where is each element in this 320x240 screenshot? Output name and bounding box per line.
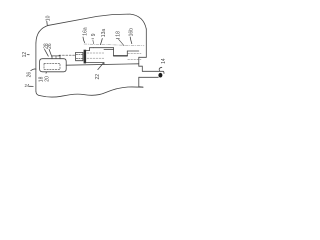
optical axis dash-dot line	[84, 44, 144, 46]
leader 28	[45, 49, 49, 56]
photodiode box (rounded)	[40, 59, 67, 72]
leader 12 tick	[27, 54, 29, 56]
leader 14	[159, 67, 162, 71]
leader 22	[98, 63, 104, 70]
svg-text:10: 10	[45, 15, 51, 21]
barrel flange thin line	[104, 49, 114, 51]
housing left edge	[35, 43, 37, 92]
leader 13a	[100, 39, 102, 45]
laser pin top line	[142, 71, 164, 73]
barrel section top edge with notch	[86, 48, 93, 51]
housing right step	[139, 56, 147, 58]
chip on box top	[52, 56, 60, 59]
leader 9	[92, 39, 94, 44]
leader 16a	[83, 37, 85, 43]
photodiode inner dashed rect	[44, 63, 60, 69]
right block top edge	[127, 50, 139, 52]
leader 16b	[130, 37, 132, 44]
housing right edge below pin	[139, 77, 143, 87]
housing top edge diagonal	[49, 14, 130, 25]
housing top-left corner arc	[36, 25, 49, 43]
svg-text:22: 22	[95, 74, 101, 80]
barrel right step down	[113, 48, 115, 56]
barrel inner dashes right	[87, 53, 104, 58]
svg-text:18: 18	[116, 31, 122, 37]
svg-text:18: 18	[38, 76, 44, 82]
svg-text:12: 12	[22, 52, 28, 58]
block inner dashes	[128, 53, 141, 59]
svg-text:9: 9	[91, 33, 97, 36]
svg-text:14: 14	[161, 58, 167, 64]
svg-text:16a: 16a	[82, 27, 88, 36]
barrel top edge	[93, 47, 113, 49]
step up to right block	[126, 51, 128, 56]
leader 10	[46, 21, 49, 25]
housing bottom-left corner	[36, 92, 40, 96]
beam dashed line to chip	[59, 54, 76, 56]
svg-text:16b: 16b	[129, 28, 135, 37]
bottom wavy flex line	[40, 87, 143, 97]
housing lower right edge	[138, 57, 140, 66]
pin notch top	[139, 66, 143, 71]
svg-text:13a: 13a	[101, 29, 107, 38]
leader 26 lower arc	[31, 69, 36, 71]
housing right edge	[145, 29, 147, 57]
base bar top line	[66, 64, 139, 65]
barrel low step thick line	[114, 55, 128, 57]
dark lens bar	[84, 50, 87, 64]
svg-text:20: 20	[44, 76, 50, 82]
laser pin bottom line	[139, 76, 159, 78]
svg-text:26: 26	[26, 72, 32, 78]
leader 24 tick	[29, 85, 33, 87]
leader 20	[45, 72, 48, 73]
svg-text:24: 24	[25, 83, 30, 88]
leader 26	[49, 49, 52, 56]
housing top-right corner arc	[130, 14, 146, 29]
svg-text:26: 26	[47, 43, 53, 49]
leader 18 top	[116, 38, 124, 45]
pin end black dot	[158, 73, 162, 78]
lens cell inner dashes	[76, 54, 82, 58]
lens cell box	[76, 52, 83, 60]
chip divider	[55, 56, 57, 59]
barrel bottom edge	[86, 63, 104, 65]
